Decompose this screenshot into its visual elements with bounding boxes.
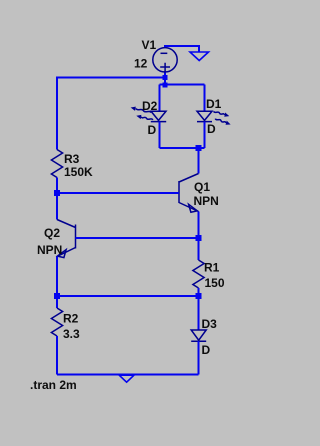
svg-text:D: D [207, 122, 216, 136]
transistor Q1 symbol [179, 174, 199, 212]
D1 led arrow upper [213, 109, 230, 118]
resistor R3 [51, 150, 62, 178]
wire V1 bottom stub [164, 71, 166, 85]
transistor Q2 symbol [57, 220, 76, 257]
svg-text:D: D [148, 123, 157, 137]
wire Q1 base from R3 node [57, 192, 179, 194]
wire Q1 collector [198, 148, 200, 174]
wire D3 bottom [198, 341, 200, 374]
diode D1 symbol [197, 111, 212, 121]
wire R3 bottom lead [56, 178, 58, 194]
wire D3 top [198, 296, 200, 330]
diode D3 symbol [191, 330, 206, 341]
svg-text:V1: V1 [142, 38, 157, 52]
svg-text:3.3: 3.3 [63, 327, 80, 341]
svg-text:R2: R2 [63, 311, 79, 325]
wire Q1 emitter [198, 212, 200, 239]
ground bottom [119, 375, 134, 382]
svg-text:.tran 2m: .tran 2m [30, 378, 77, 392]
wire R2 top lead [56, 296, 58, 308]
wire diode top tee [160, 85, 205, 112]
svg-text:150: 150 [205, 276, 225, 290]
wire V1 top to ground [165, 46, 199, 52]
Q1 emitter arrow [189, 204, 198, 212]
svg-text:150K: 150K [64, 165, 93, 179]
resistor R1 [193, 260, 204, 288]
wire D2 bottom [159, 122, 161, 148]
diode D2 symbol [151, 111, 166, 121]
svg-text:Q1: Q1 [194, 180, 210, 194]
wire diode bottom bar [160, 147, 205, 149]
svg-text:D3: D3 [202, 317, 218, 331]
wire Q2 collector [56, 193, 58, 220]
svg-text:Q2: Q2 [44, 226, 60, 240]
voltage source V1 circle [153, 48, 177, 72]
wire bottom rail [57, 374, 199, 376]
svg-text:D: D [202, 343, 211, 357]
resistor R2 [51, 308, 62, 336]
Q2 emitter arrow [57, 250, 66, 258]
node junction Q1 emitter / Q2 base / R1 [196, 235, 202, 241]
V1 plus sign [160, 63, 170, 71]
wire top-left L from V1 bottom node to left rail down to R3 [57, 77, 165, 149]
svg-text:R3: R3 [64, 152, 80, 166]
svg-text:12: 12 [134, 57, 148, 71]
node junction diode bottom / Q1 collector [196, 145, 202, 151]
wire D1 bottom [204, 122, 206, 148]
node junction R3 / Q1 base [54, 190, 60, 196]
D1 led arrow lower [215, 117, 232, 127]
node junction R1 bottom / D3 [196, 293, 202, 299]
svg-text:D1: D1 [206, 97, 222, 111]
wire Q2 base to R1 node [76, 237, 199, 239]
wire R1 bottom lead [198, 288, 200, 296]
node junction diode top [163, 83, 168, 88]
wire R2 bottom lead to bottom rail [56, 336, 58, 375]
svg-text:NPN: NPN [194, 194, 219, 208]
D2 led arrow upper [130, 105, 152, 114]
svg-text:D2: D2 [142, 99, 158, 113]
svg-text:R1: R1 [204, 261, 220, 275]
ground top [190, 52, 209, 61]
D2 led arrow lower [136, 114, 154, 122]
V1 minus sign [161, 52, 168, 54]
svg-text:NPN: NPN [37, 243, 62, 257]
node junction V1 bottom [163, 75, 168, 80]
wire Q2 emitter [56, 257, 58, 297]
wire R1 top lead [198, 238, 200, 260]
wire middle horizontal [57, 295, 199, 297]
node junction Q2 emitter / R2 [54, 293, 60, 299]
